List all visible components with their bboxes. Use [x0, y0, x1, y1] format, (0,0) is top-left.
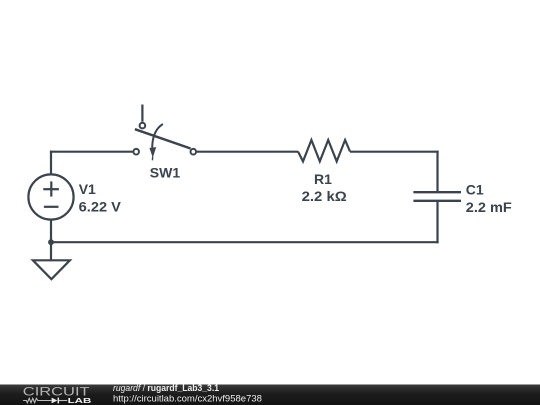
- voltage source V1: [28, 174, 73, 219]
- svg-text:V1: V1: [79, 181, 96, 197]
- wire from C1 bottom plate down to bottom rail: [436, 202, 438, 244]
- logo schematic line with resistor: [23, 398, 51, 402]
- footer bar: [0, 385, 540, 405]
- node junction dot at V1 bottom: [48, 239, 54, 245]
- switch arrow head: [149, 147, 156, 158]
- svg-text:http://circuitlab.com/cx2hvf95: http://circuitlab.com/cx2hvf958e738: [113, 394, 262, 405]
- svg-text:R1: R1: [314, 171, 332, 187]
- svg-text:rugardf / rugardf_Lab3_3.1: rugardf / rugardf_Lab3_3.1: [113, 383, 219, 393]
- svg-text:2.2 kΩ: 2.2 kΩ: [302, 188, 347, 204]
- svg-text:SW1: SW1: [150, 165, 181, 181]
- svg-text:CIRCUIT: CIRCUIT: [23, 385, 91, 399]
- svg-text:6.22 V: 6.22 V: [79, 199, 122, 215]
- wire bottom rail: [50, 241, 439, 243]
- wire from R1 to top-right corner: [350, 151, 439, 153]
- svg-text:2.2 mF: 2.2 mF: [466, 199, 512, 215]
- ground: [33, 260, 70, 279]
- wire V1 top stub: [50, 151, 52, 175]
- logo diode: [52, 398, 58, 404]
- svg-text:C1: C1: [466, 181, 484, 197]
- wire from SW1 right terminal to R1: [197, 151, 298, 153]
- svg-text:LAB: LAB: [68, 398, 92, 405]
- wire top-left from V1 to SW1 left terminal: [50, 151, 133, 153]
- wire right vertical down to C1 top plate: [436, 151, 438, 192]
- wire V1 bottom stub: [50, 219, 52, 242]
- capacitor C1: [413, 192, 461, 201]
- switch SW1: [133, 105, 196, 155]
- resistor R1: [298, 140, 350, 161]
- wire ground stub: [50, 242, 52, 260]
